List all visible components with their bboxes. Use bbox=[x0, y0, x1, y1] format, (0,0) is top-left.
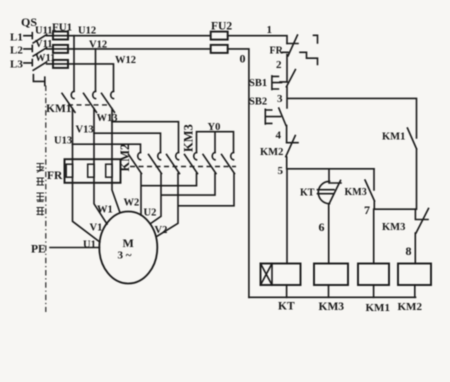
wire drop U12 to KM1 pole 1 bbox=[73, 36, 75, 92]
svg-text:0: 0 bbox=[240, 51, 246, 65]
switch QS pole L1 bbox=[10, 32, 47, 44]
wire L2 phase to FU2 (V12 / line 0) bbox=[47, 48, 211, 50]
contactor KM3 main contact pole 3 bbox=[222, 153, 235, 174]
contactor KM1 main contact pole 2 bbox=[84, 91, 97, 159]
svg-text:KM3: KM3 bbox=[345, 187, 367, 198]
contactor KM2 main contact pole 3 bbox=[167, 153, 180, 174]
svg-text:6: 6 bbox=[319, 220, 325, 234]
wire L1 phase to FU2 (U12 / line 1) bbox=[47, 35, 211, 37]
switch QS label bbox=[21, 15, 37, 29]
contactor KM2 main contact pole 2 bbox=[149, 153, 162, 174]
wire node 5 + branch bbox=[278, 165, 375, 264]
wire L3 phase (W12) bbox=[47, 64, 114, 91]
svg-text:KT: KT bbox=[278, 301, 295, 313]
svg-text:3: 3 bbox=[277, 93, 283, 105]
node label U11 bbox=[35, 26, 53, 37]
svg-text:U1: U1 bbox=[83, 240, 96, 251]
wire PE bbox=[31, 244, 99, 256]
coil KM2 bbox=[398, 264, 432, 314]
svg-text:8: 8 bbox=[406, 244, 412, 258]
svg-text:U11: U11 bbox=[35, 26, 53, 37]
svg-text:M: M bbox=[123, 236, 134, 250]
KM2 KM3 linkage dashed line bbox=[130, 166, 236, 168]
svg-text:7: 7 bbox=[364, 203, 370, 217]
svg-text:KM3: KM3 bbox=[319, 301, 345, 313]
svg-text:2: 2 bbox=[276, 59, 282, 71]
wire drop V12 to KM1 pole 2 bbox=[95, 49, 97, 91]
timer KT delayed contact bbox=[300, 169, 341, 264]
wire net W2 (KM2 p1 + KM3 p1 to motor) bbox=[141, 174, 197, 216]
node label U12 bbox=[78, 26, 96, 37]
contactor KM2 NC aux contact bbox=[260, 136, 298, 169]
svg-text:1: 1 bbox=[267, 24, 273, 36]
svg-text:W2: W2 bbox=[124, 198, 140, 209]
svg-text:4: 4 bbox=[276, 130, 282, 142]
node label V11 bbox=[35, 39, 53, 50]
equipment boundary dash-dot line 设备界线 bbox=[45, 86, 47, 313]
svg-text:L1: L1 bbox=[10, 32, 23, 44]
svg-text:KM3: KM3 bbox=[182, 124, 196, 152]
svg-text:KM3: KM3 bbox=[382, 222, 405, 233]
coil KM3 bbox=[314, 264, 348, 314]
contactor KM1 main contact pole 1 bbox=[62, 91, 75, 159]
svg-text:W13: W13 bbox=[97, 113, 118, 124]
bottom bus wire (line 0 return) bbox=[249, 296, 416, 298]
KM1 label bbox=[46, 103, 72, 115]
switch QS pole L3 bbox=[10, 59, 47, 71]
svg-text:SB2: SB2 bbox=[249, 97, 267, 108]
terminal label V1 bbox=[90, 223, 103, 234]
svg-text:KM2: KM2 bbox=[118, 144, 132, 172]
button SB1 (NC stop) bbox=[249, 70, 295, 90]
contactor KM1 main contact pole 3 bbox=[102, 91, 115, 159]
contactor KM3 main contact pole 1 bbox=[185, 153, 198, 174]
thermal relay FR NC contact bbox=[270, 35, 318, 65]
wire net U1 (FR to motor) bbox=[73, 183, 100, 242]
KM1 linkage dashed line bbox=[68, 104, 110, 106]
node label W12 bbox=[115, 55, 136, 66]
terminal label W2 bbox=[124, 198, 140, 209]
svg-text:U13: U13 bbox=[54, 136, 72, 147]
wire net V1 (FR to motor) bbox=[94, 183, 107, 224]
wire W13 branch to KM2 pole 3 bbox=[97, 113, 179, 152]
switch QS linkage bracket bbox=[33, 75, 44, 86]
svg-text:L2: L2 bbox=[10, 45, 23, 57]
svg-text:KM1: KM1 bbox=[382, 132, 405, 143]
contactor KM1 NO aux contact bbox=[382, 128, 417, 209]
svg-text:V12: V12 bbox=[89, 40, 107, 51]
fuse FU1 bbox=[52, 22, 72, 68]
svg-text:3 ~: 3 ~ bbox=[118, 250, 132, 262]
svg-text:W12: W12 bbox=[115, 55, 136, 66]
svg-text:L3: L3 bbox=[10, 59, 23, 71]
svg-text:FR: FR bbox=[270, 46, 284, 57]
KM2 label (vertical) bbox=[118, 144, 132, 172]
svg-text:KM1: KM1 bbox=[46, 103, 72, 115]
svg-text:V13: V13 bbox=[76, 125, 94, 136]
svg-text:U12: U12 bbox=[78, 26, 96, 37]
wire line 0 (FU2 to bottom bus) bbox=[228, 49, 249, 297]
boundary label glyphs (CJK drawn as strokes) bbox=[37, 164, 45, 216]
switch QS pole L2 bbox=[10, 45, 47, 57]
wire node 4 bbox=[276, 126, 287, 143]
terminal label V2 bbox=[155, 225, 168, 236]
node label V12 bbox=[89, 40, 107, 51]
fuse FU2 bbox=[211, 21, 233, 53]
coil KT (time relay) bbox=[261, 264, 301, 313]
wire net W1 (FR to motor) bbox=[112, 183, 120, 213]
wire node 3 + branch to KM1 aux bbox=[277, 87, 417, 138]
terminal label U1 bbox=[83, 240, 96, 251]
coil KM1 bbox=[358, 264, 390, 315]
wire node 7 + KM1 coil feed bbox=[364, 203, 415, 264]
svg-text:V2: V2 bbox=[155, 225, 168, 236]
svg-text:KM2: KM2 bbox=[398, 301, 423, 313]
wire V13 branch to KM2 pole 2 bbox=[76, 125, 161, 153]
button SB2 (NO start) bbox=[249, 97, 286, 126]
svg-text:SB1: SB1 bbox=[249, 78, 267, 89]
svg-text:KT: KT bbox=[300, 188, 315, 199]
svg-text:KM1: KM1 bbox=[366, 302, 390, 314]
star point bus Y0 bbox=[197, 122, 234, 153]
thermal relay FR heater box bbox=[47, 159, 121, 183]
svg-text:5: 5 bbox=[278, 165, 284, 177]
wire net U2 (KM2 p2 + KM3 p2 to motor) bbox=[151, 174, 215, 224]
terminal label W1 bbox=[97, 205, 113, 216]
contactor KM3 NO aux contact bbox=[345, 169, 375, 209]
svg-text:FR: FR bbox=[47, 170, 63, 182]
node label W11 bbox=[35, 53, 55, 64]
wire line 1 (FU2 to FR contact) bbox=[228, 24, 287, 44]
wire U13 branch to KM2 pole 1 bbox=[54, 136, 141, 153]
motor M 3~ bbox=[99, 212, 157, 284]
svg-text:W1: W1 bbox=[97, 205, 113, 216]
KM3 label (vertical) bbox=[182, 124, 196, 152]
wire node 2 bbox=[276, 55, 287, 82]
contactor KM2 main contact pole 1 bbox=[129, 153, 142, 174]
svg-text:PE: PE bbox=[31, 244, 46, 256]
terminal label U2 bbox=[144, 208, 157, 219]
wire net V2 (KM2 p3 + KM3 p3 to motor) bbox=[157, 174, 235, 237]
svg-text:KM2: KM2 bbox=[260, 147, 283, 158]
contactor KM3 main contact pole 2 bbox=[203, 153, 216, 174]
svg-text:V1: V1 bbox=[90, 223, 103, 234]
contactor KM3 NC aux contact bbox=[382, 209, 429, 264]
svg-text:U2: U2 bbox=[144, 208, 157, 219]
